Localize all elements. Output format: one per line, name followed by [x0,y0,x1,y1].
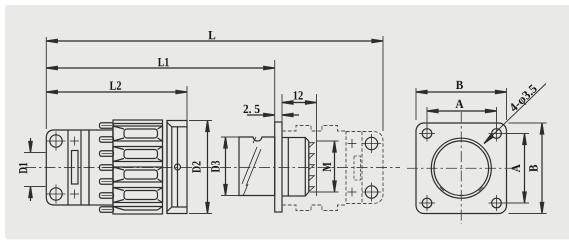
contact teeth [309,143,315,192]
dimension B right [509,123,547,214]
phantom screw cross bottom [348,188,357,197]
clamp hole bottom [47,185,66,204]
coupling ring rib 3 [113,167,163,182]
phantom rear accessory outline [346,132,383,204]
square flange [416,123,507,214]
front band [166,120,168,214]
dimension L [46,36,383,131]
dimension 2.5 [247,113,299,116]
coupling ring rib 2 [113,147,163,162]
bushing hatch slashes [242,137,261,196]
main horizontal centerline [25,167,400,169]
screw cross bottom [70,190,79,199]
receptacle insert [288,138,309,197]
phantom screw cross top [348,139,357,148]
phantom slot [354,156,361,180]
dimension B top [416,88,507,120]
dimension M [310,141,339,192]
insert shoulder lines [282,137,288,139]
dimension L1 [46,60,274,122]
dimension A right [504,134,529,204]
plug cable-clamp flange [46,130,89,205]
dimension A top [427,107,497,128]
label 4-phi3.5 leader [483,84,546,145]
screw cross top [70,137,79,146]
receptacle bushing block [239,137,275,196]
receptacle shell hidden outline bottom [282,205,346,211]
coupling ring body [113,120,163,214]
plug rear nut [89,130,113,205]
coupling ring rib 1 [113,126,163,141]
mounting hole bottom-left [419,195,435,211]
rear nut knurl bars [100,123,114,213]
phantom hole bottom [362,183,381,202]
coupling ring rib 4 [113,188,163,203]
receptacle mounting flange plate [275,122,282,212]
keyway marks on inner circle [440,187,444,191]
center barrel outer circle [431,138,491,198]
mounting hole top-left [419,126,435,142]
dimension D3 [221,137,240,196]
mounting hole bottom-right [489,195,505,211]
center barrel inner circle [434,141,489,196]
dimension D1 [24,138,46,201]
coupling ring partial rib bottom [113,207,163,211]
phantom hole top [362,134,381,153]
clamp slot [72,151,79,185]
receptacle shell hidden outline top [282,126,346,132]
coupling ring partial rib top [113,123,163,125]
dimension 12 [282,94,317,196]
mounting hole top-right [489,126,505,142]
plug front shell [167,121,187,214]
dimension L2 [46,86,187,121]
clamp hole top [47,132,66,151]
flange centerlines [460,112,462,224]
dimension D2 [189,121,212,214]
